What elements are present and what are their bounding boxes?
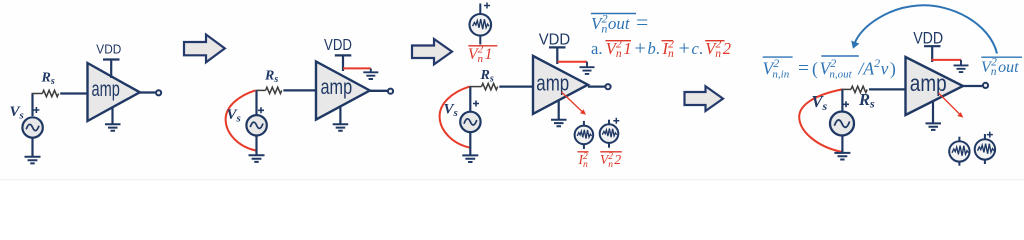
formula a.Vn21 + b.In2 + c.Vn22 — [591, 38, 731, 61]
wire amp output — [588, 85, 605, 87]
svg-text:=: = — [798, 59, 809, 80]
svg-text:c.: c. — [692, 39, 703, 58]
svg-text:In2: In2 — [662, 39, 675, 61]
svg-text:Vs: Vs — [812, 92, 828, 113]
ground below Vs — [462, 155, 478, 162]
noise current source In — [575, 126, 594, 145]
wire amp output — [140, 91, 155, 93]
output terminal — [156, 90, 161, 95]
ground below Vs — [834, 153, 850, 160]
svg-text:Rs: Rs — [858, 90, 875, 111]
svg-text:VDD: VDD — [539, 31, 571, 48]
plus polarity mark — [843, 101, 849, 107]
svg-text:(: ( — [812, 59, 818, 79]
plus polarity mark — [473, 101, 479, 107]
ground below amp — [551, 120, 567, 127]
wire node to resistor — [841, 88, 851, 90]
label Vn^2 2 (red, overlined) — [600, 151, 622, 153]
PANEL2 — [226, 37, 394, 162]
VDD supply bar and wire — [924, 46, 941, 62]
plus polarity mark — [33, 107, 39, 113]
noise source Vn1 lead — [479, 4, 481, 45]
wire resistor to amp input — [283, 89, 316, 91]
label In^2 (red, overlined) — [578, 151, 589, 153]
svg-text:amp: amp — [92, 77, 120, 101]
svg-text:Rs: Rs — [41, 71, 55, 88]
svg-text:): ) — [890, 59, 896, 79]
op-amp amp — [316, 62, 370, 120]
output terminal — [388, 89, 393, 94]
plus polarity of Vn2 — [613, 118, 619, 124]
noise voltage source — [975, 139, 995, 159]
wire amp output — [963, 85, 982, 87]
PANEL1 — [10, 41, 162, 163]
wire amp to ground — [339, 106, 341, 125]
wire node to resistor — [32, 93, 43, 95]
svg-text:Vn21: Vn21 — [468, 44, 492, 66]
svg-text:amp: amp — [536, 70, 569, 95]
noise source Vn1 (resistor noise) — [470, 14, 492, 36]
plus polarity of Vn1 — [484, 3, 490, 9]
svg-text:Vn22: Vn22 — [705, 39, 731, 61]
svg-text:Vs: Vs — [227, 107, 241, 125]
wire source to ground — [841, 136, 843, 153]
svg-text:V2n,in: V2n,in — [763, 56, 790, 81]
noise voltage source Vn2 — [600, 124, 619, 143]
ground below Vs — [25, 157, 41, 164]
wire resistor to amp input — [869, 88, 906, 90]
plus polarity of noise voltage source — [987, 132, 993, 138]
resistor R_s — [482, 83, 498, 89]
svg-text:Rs: Rs — [264, 69, 278, 86]
ground below amp — [105, 124, 121, 131]
svg-text:Vn2out=: Vn2out= — [591, 10, 648, 36]
svg-text:VDD: VDD — [96, 41, 121, 56]
ground below Vs — [249, 155, 265, 162]
wire amp to ground — [111, 107, 113, 124]
red wire VDD to AC ground — [557, 61, 587, 63]
formula Vn,in^2 = (Vn,out^2 / A^2 v) — [763, 56, 793, 58]
resistor R_s — [266, 87, 282, 93]
wire source to ground — [469, 132, 471, 156]
ground at VDD (AC) — [363, 68, 378, 79]
wire source to ground — [31, 137, 33, 157]
svg-text:VDD: VDD — [324, 37, 352, 54]
output terminal — [983, 83, 988, 88]
VDD supply bar and wire — [103, 60, 120, 79]
red wire VDD to AC ground — [932, 59, 962, 61]
noise voltage source Vn2 lead — [608, 120, 610, 148]
svg-text:Vn21: Vn21 — [606, 39, 632, 61]
wire amp to ground — [558, 101, 560, 120]
ground at VDD (AC) — [580, 62, 595, 74]
red arrow to noise sources — [939, 93, 961, 115]
svg-text:VDD: VDD — [913, 30, 943, 48]
red wire VDD to AC ground — [343, 67, 371, 69]
wire from source Vs up to resistor node — [31, 94, 33, 117]
VDD supply bar and wire — [335, 55, 352, 71]
svg-text:Vn2out: Vn2out — [981, 57, 1019, 79]
op-amp amp — [533, 56, 588, 114]
ground below amp — [926, 123, 942, 129]
formula Vn2out (blue, overlined) — [591, 13, 636, 15]
svg-text:+: + — [635, 38, 646, 60]
svg-text:Rs: Rs — [480, 68, 494, 85]
ground below amp — [333, 124, 349, 131]
svg-text:Vs: Vs — [10, 104, 24, 122]
resistor R_s — [42, 90, 58, 96]
svg-text:+: + — [679, 38, 690, 60]
wire from source Vs up to resistor node — [841, 89, 843, 112]
voltage source Vs — [460, 112, 480, 132]
op-amp amp — [88, 63, 140, 121]
red wire marking source loop — [440, 87, 470, 148]
VDD supply bar and wire — [549, 47, 566, 64]
PANEL4 — [763, 5, 1023, 165]
wire from source Vs up to resistor node — [469, 87, 471, 111]
svg-text:a.: a. — [591, 39, 602, 58]
plus polarity mark — [258, 107, 264, 113]
red wire marking source loop — [799, 89, 842, 152]
svg-text:Vs: Vs — [444, 102, 458, 120]
wire source to ground — [255, 135, 257, 155]
faint page edge — [0, 179, 1024, 180]
svg-text:In2: In2 — [578, 152, 589, 170]
wire resistor to amp input — [60, 92, 87, 94]
red short wire marking source loop — [226, 90, 256, 150]
svg-text:amp: amp — [910, 70, 947, 96]
svg-text:b.: b. — [648, 39, 660, 58]
wire amp to ground — [932, 102, 934, 123]
noise current source — [949, 141, 969, 161]
svg-text:amp: amp — [321, 75, 353, 99]
noise voltage source lead — [984, 134, 986, 164]
output terminal — [605, 84, 610, 89]
voltage source Vs — [22, 117, 42, 137]
voltage source Vs — [246, 115, 266, 135]
resistor R_s — [851, 86, 867, 92]
PANEL3 — [440, 3, 731, 171]
ground at VDD (AC) — [954, 60, 969, 72]
label Vn^2 1 (red, overlined) — [468, 45, 497, 47]
wire resistor to amp input — [499, 85, 533, 87]
svg-text:/A2v: /A2v — [858, 56, 889, 79]
noise current source In lead — [583, 121, 585, 149]
label Vn2out (blue, overlined) — [981, 56, 1022, 58]
wire amp output — [370, 90, 387, 92]
blue feedback arrow over amp — [855, 5, 998, 53]
wire node to resistor — [256, 89, 266, 91]
flow arrow 2 — [412, 39, 452, 64]
voltage source Vs — [830, 112, 854, 136]
red arrow to noise sources — [562, 92, 583, 112]
op-amp amp — [906, 57, 964, 115]
wire node to resistor — [469, 86, 481, 88]
noise current source lead — [958, 137, 960, 166]
svg-text:Vn22: Vn22 — [600, 152, 621, 170]
wire from source Vs up to resistor node — [255, 90, 257, 114]
flow arrow 1 — [184, 35, 225, 63]
flow arrow 3 — [685, 86, 724, 111]
svg-text:V2n,out: V2n,out — [820, 56, 853, 81]
